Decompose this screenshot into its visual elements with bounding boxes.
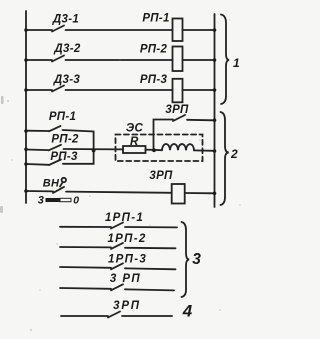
svg-text:1: 1 bbox=[233, 56, 240, 70]
svg-text:R: R bbox=[130, 136, 139, 148]
svg-text:3РП: 3РП bbox=[113, 300, 141, 312]
svg-text:1РП-1: 1РП-1 bbox=[105, 212, 144, 224]
svg-text:РП-3: РП-3 bbox=[140, 74, 168, 86]
svg-text:Д3-3: Д3-3 bbox=[53, 74, 80, 86]
svg-text:3: 3 bbox=[38, 195, 44, 207]
svg-text:0: 0 bbox=[73, 194, 79, 206]
svg-text:ЭС: ЭС bbox=[126, 123, 144, 135]
svg-text:3РП: 3РП bbox=[149, 170, 173, 182]
svg-text:РП-1: РП-1 bbox=[49, 111, 76, 123]
svg-text:4: 4 bbox=[182, 302, 193, 321]
svg-text:3: 3 bbox=[192, 251, 201, 268]
svg-text:1РП-2: 1РП-2 bbox=[107, 233, 146, 245]
svg-text:РП-2: РП-2 bbox=[140, 43, 168, 55]
svg-text:РП-3: РП-3 bbox=[50, 151, 78, 163]
svg-text:2: 2 bbox=[230, 147, 238, 161]
svg-text:РП-2: РП-2 bbox=[51, 133, 79, 145]
svg-text:Д3-1: Д3-1 bbox=[52, 14, 79, 26]
svg-text:3 РП: 3 РП bbox=[110, 273, 141, 285]
svg-text:3РП: 3РП bbox=[165, 104, 189, 116]
svg-text:РП-1: РП-1 bbox=[142, 12, 169, 24]
svg-text:1РП-3: 1РП-3 bbox=[108, 253, 147, 265]
svg-text:ВН: ВН bbox=[43, 177, 60, 189]
svg-text:Д3-2: Д3-2 bbox=[53, 43, 80, 55]
